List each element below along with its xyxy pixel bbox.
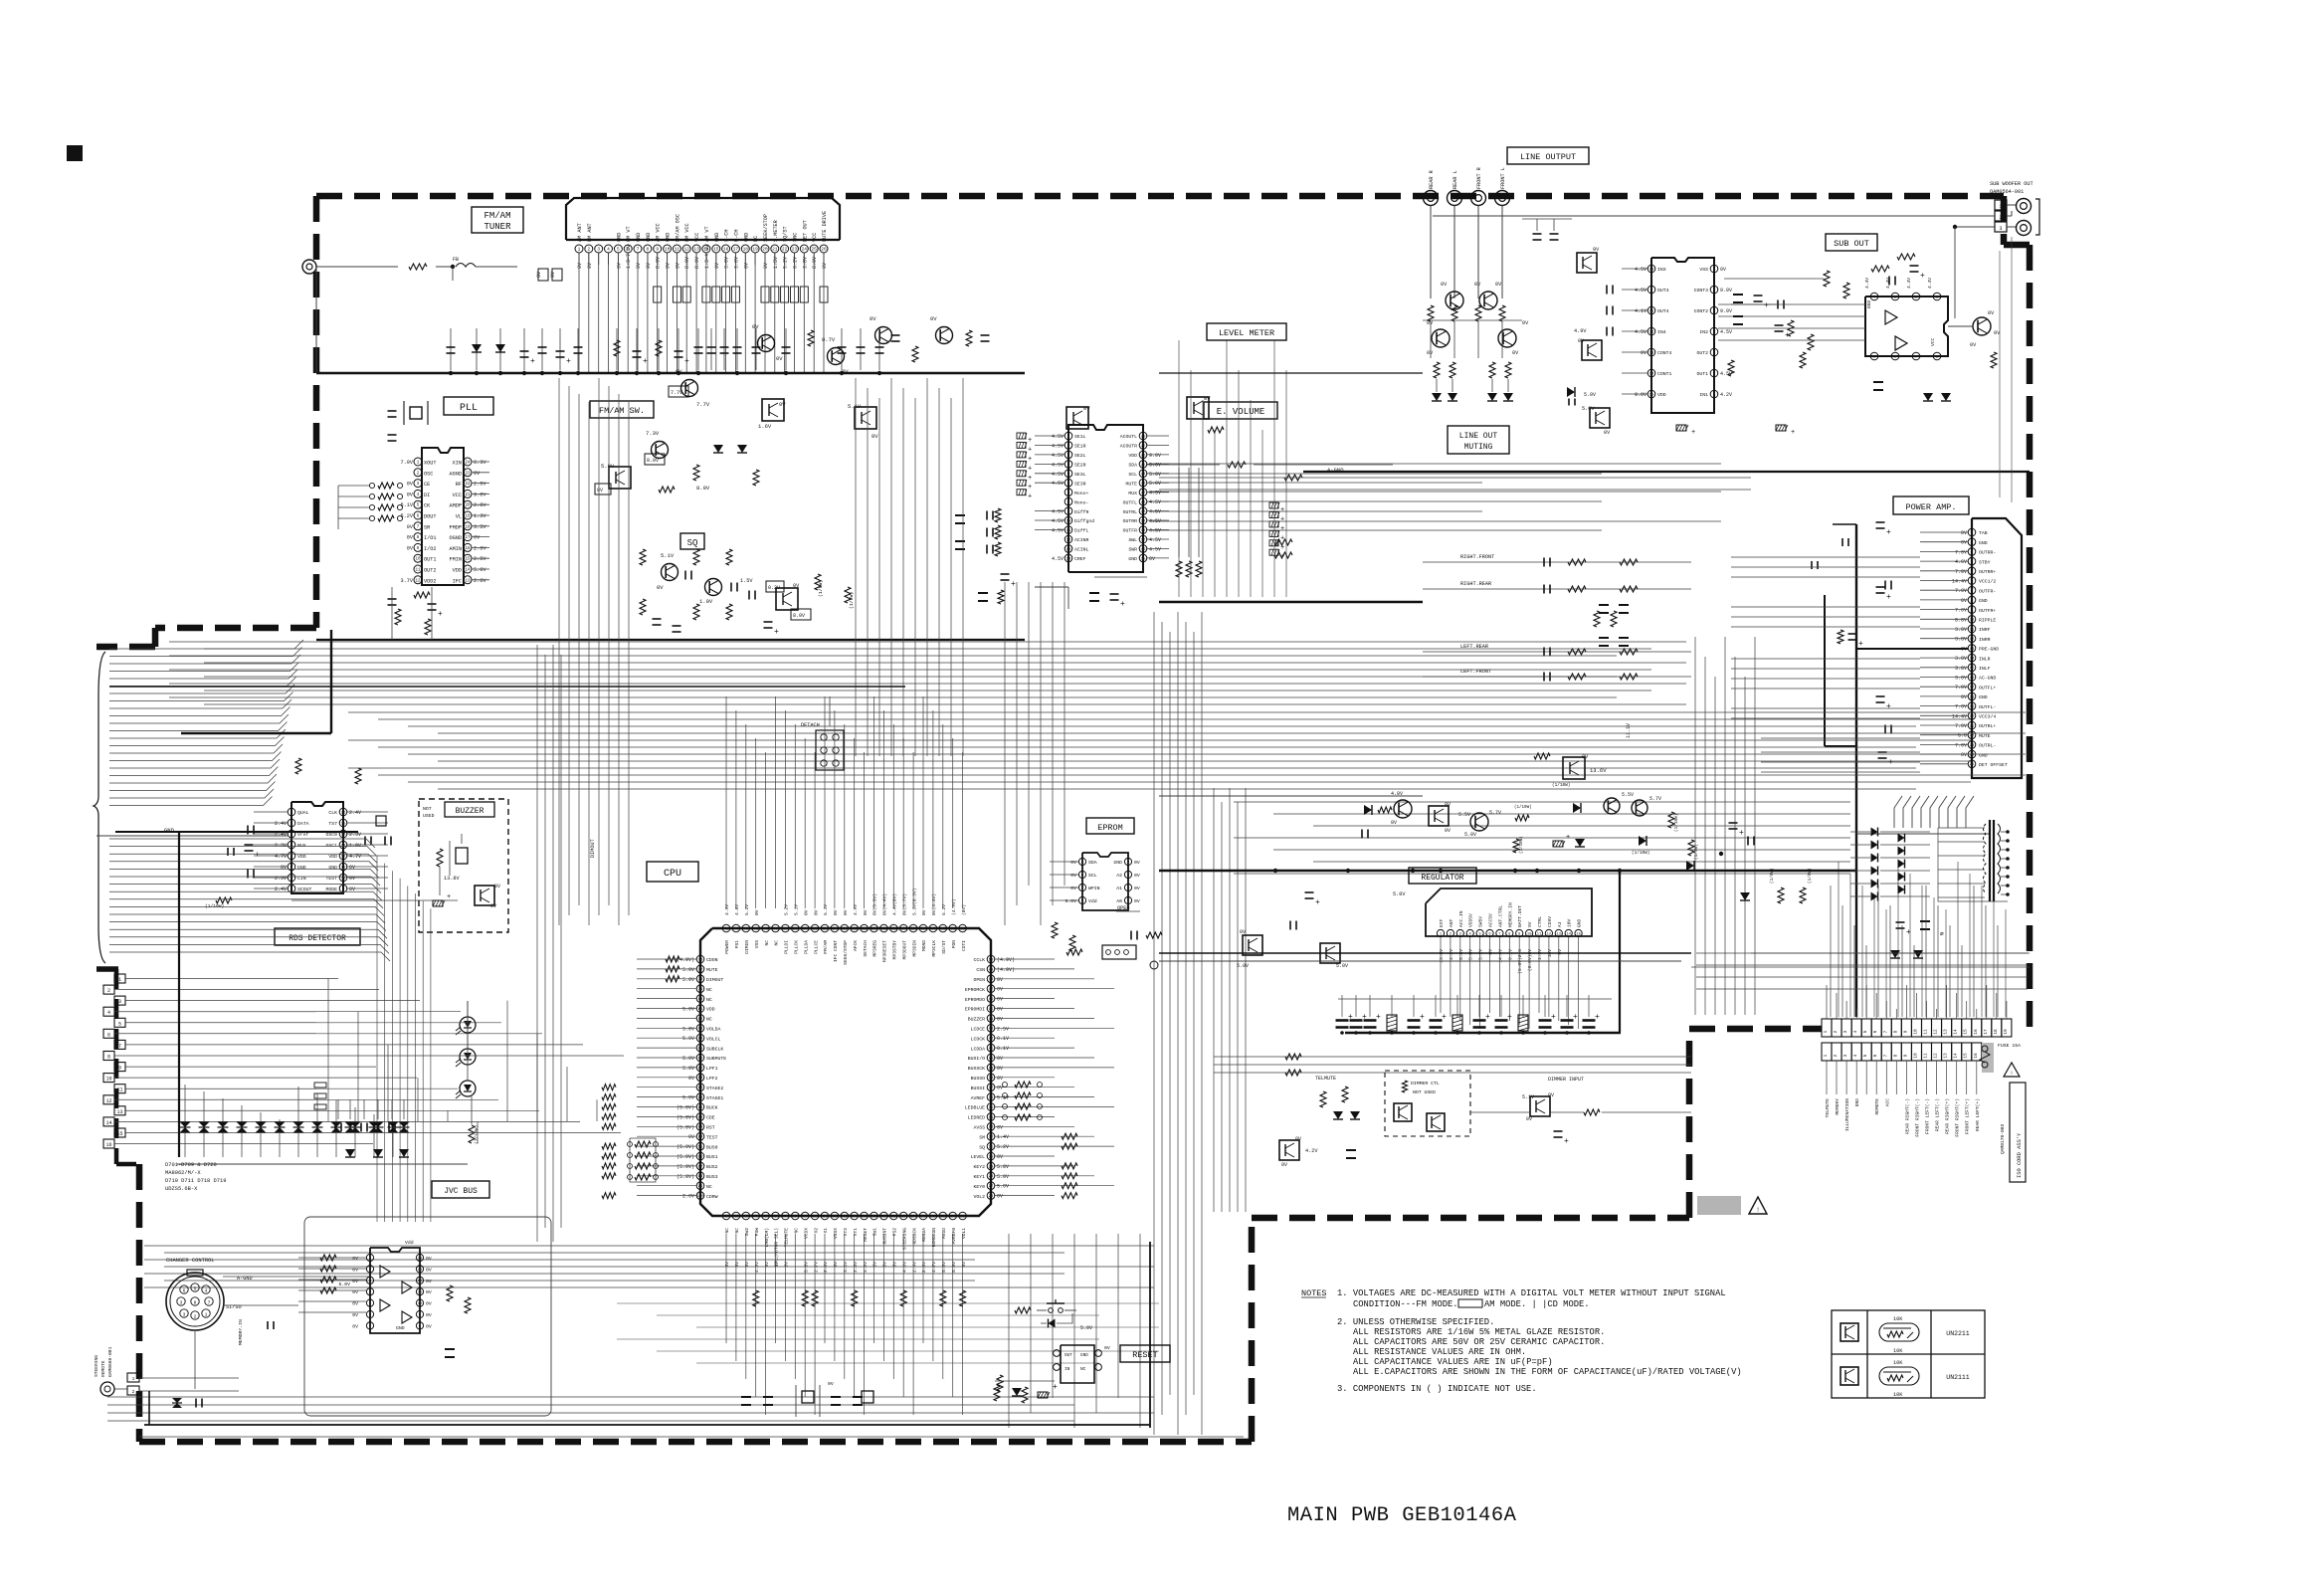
svg-text:16: 16 — [1974, 1053, 1979, 1059]
svg-text:93: 93 — [698, 1126, 703, 1130]
svg-text:GND: GND — [1854, 1098, 1860, 1107]
svg-text:0V: 0V — [921, 909, 927, 915]
svg-text:9: 9 — [118, 1066, 121, 1072]
svg-text:70: 70 — [773, 927, 778, 931]
connector row lines — [316, 978, 338, 980]
svg-text:4.6V: 4.6V — [1955, 559, 1967, 565]
svg-text:2: 2 — [1834, 1054, 1839, 1057]
svg-text:1.6V: 1.6V — [758, 423, 772, 430]
svg-text:MP3STBY: MP3STBY — [892, 940, 898, 960]
svg-text:9: 9 — [1903, 1030, 1908, 1033]
svg-text:7.7V: 7.7V — [671, 390, 682, 396]
svg-text:26: 26 — [989, 1195, 994, 1199]
svg-text:0V: 0V — [349, 865, 355, 871]
svg-text:NC: NC — [774, 940, 780, 946]
svg-text:2.0V: 2.0V — [682, 1194, 694, 1200]
svg-text:CDRW: CDRW — [706, 1194, 718, 1200]
svg-text:0V: 0V — [1391, 820, 1397, 826]
E.VOL diff network — [986, 511, 988, 520]
svg-text:45: 45 — [989, 1008, 994, 1012]
svg-text:40: 40 — [989, 1057, 994, 1061]
svg-text:STAGE2: STAGE2 — [706, 1086, 723, 1091]
svg-text:0V: 0V — [688, 1134, 694, 1140]
svg-text:SQ/ST: SQ/ST — [783, 226, 789, 242]
svg-text:17: 17 — [465, 536, 471, 540]
line output jacks — [1424, 191, 1439, 206]
svg-text:GND: GND — [666, 233, 672, 242]
svg-text:8.0V: 8.0V — [684, 257, 690, 269]
svg-text:0V: 0V — [1961, 752, 1967, 758]
svg-text:TELMUTE: TELMUTE — [1825, 1098, 1831, 1118]
svg-text:FM VT: FM VT — [626, 226, 632, 242]
svg-text:31: 31 — [989, 1146, 994, 1150]
svg-text:5.0V: 5.0V — [601, 463, 615, 470]
main top rail — [316, 372, 1025, 375]
svg-text:16: 16 — [1970, 677, 1975, 681]
svg-text:TAB: TAB — [1979, 530, 1988, 536]
svg-text:0V: 0V — [1578, 338, 1585, 344]
svg-text:0V: 0V — [997, 1086, 1003, 1091]
svg-text:18: 18 — [1994, 1029, 1999, 1035]
center vertical bundle — [558, 378, 560, 925]
svg-text:0V: 0V — [474, 471, 481, 477]
svg-text:0V: 0V — [636, 263, 642, 269]
svg-text:0V: 0V — [1295, 1136, 1301, 1142]
jumpers — [314, 1083, 326, 1087]
svg-text:+: + — [1053, 1383, 1058, 1392]
svg-text:69: 69 — [783, 927, 788, 931]
svg-text:7: 7 — [208, 1300, 211, 1306]
svg-text:PS2: PS2 — [892, 1228, 898, 1237]
svg-text:SUBMUTE: SUBMUTE — [706, 1056, 726, 1062]
svg-text:NC: NC — [734, 1228, 740, 1234]
svg-text:29: 29 — [989, 1165, 994, 1169]
svg-text:14: 14 — [105, 1120, 111, 1126]
svg-text:5.1V: 5.1V — [848, 403, 862, 410]
opto surroundings — [298, 1257, 366, 1259]
svg-text:23: 23 — [792, 247, 798, 253]
svg-text:CONT2: CONT2 — [1694, 308, 1709, 314]
svg-text:OUTFR+: OUTFR+ — [1979, 608, 1996, 614]
svg-text:0V: 0V — [426, 1279, 432, 1284]
svg-text:0V: 0V — [803, 909, 809, 915]
svg-text:AVSS: AVSS — [973, 1125, 985, 1131]
svg-text:2.6V: 2.6V — [474, 545, 486, 551]
svg-text:65: 65 — [823, 927, 828, 931]
svg-text:!: ! — [1756, 1207, 1760, 1214]
svg-text:CONT4: CONT4 — [1657, 350, 1672, 356]
svg-text:STEERING: STEERING — [901, 1228, 907, 1250]
steering remote jack — [100, 1382, 114, 1396]
svg-text:3: 3 — [180, 1300, 183, 1306]
svg-text:7.0V: 7.0V — [1955, 723, 1967, 729]
svg-text:18: 18 — [743, 247, 749, 253]
svg-text:1: 1 — [1999, 204, 2002, 210]
E.VOLUME label — [1204, 402, 1277, 419]
svg-text:13: 13 — [1066, 548, 1071, 552]
svg-text:GAM0688-001: GAM0688-001 — [107, 1346, 113, 1377]
svg-text:+: + — [643, 357, 648, 366]
svg-text:2.5V: 2.5V — [474, 482, 486, 488]
svg-text:12: 12 — [683, 247, 689, 253]
svg-text:POWER AMP.: POWER AMP. — [1905, 502, 1956, 512]
svg-text:TEST: TEST — [706, 1134, 718, 1140]
svg-text:DiffR: DiffR — [1074, 509, 1089, 515]
svg-text:19: 19 — [752, 247, 758, 253]
svg-text:63: 63 — [842, 927, 847, 931]
svg-text:2.4V: 2.4V — [911, 1262, 917, 1273]
svg-text:ALL RESISTORS ARE 1/16W 5% MET: ALL RESISTORS ARE 1/16W 5% METAL GLAZE R… — [1353, 1327, 1605, 1337]
svg-text:GND: GND — [396, 1325, 405, 1331]
svg-text:ALL CAPACITORS ARE 50V OR 25V: ALL CAPACITORS ARE 50V OR 25V CERAMIC CA… — [1353, 1337, 1605, 1347]
LINE OUT MUTING label — [1448, 426, 1509, 454]
svg-text:LINE OUT: LINE OUT — [1459, 432, 1498, 441]
svg-text:CONT3: CONT3 — [1694, 288, 1709, 294]
svg-text:76: 76 — [698, 958, 703, 962]
svg-text:MP3DIN: MP3DIN — [911, 940, 917, 957]
svg-text:0.2V: 0.2V — [793, 257, 799, 269]
svg-text:VOLDA: VOLDA — [706, 1027, 721, 1033]
svg-text:+: + — [1764, 301, 1769, 310]
svg-text:SW2: SW2 — [744, 1228, 750, 1237]
E.VOL resistors to bus — [1178, 468, 1180, 557]
svg-text:0V: 0V — [743, 263, 749, 269]
tuner connector CN101 — [566, 198, 840, 240]
svg-text:12: 12 — [341, 855, 346, 859]
svg-text:5.0V: 5.0V — [997, 1184, 1009, 1190]
svg-text:88: 88 — [698, 1077, 703, 1081]
svg-text:1.3V: 1.3V — [1537, 949, 1543, 960]
svg-text:4: 4 — [107, 1010, 110, 1016]
svg-text:3. COMPONENTS IN ( ) INDICATE: 3. COMPONENTS IN ( ) INDICATE NOT USE. — [1337, 1384, 1537, 1394]
svg-text:GND: GND — [636, 233, 642, 242]
svg-text:11: 11 — [1970, 628, 1975, 632]
svg-text:7: 7 — [1498, 932, 1500, 936]
svg-text:NC: NC — [764, 940, 770, 946]
svg-text:0V: 0V — [828, 1381, 834, 1387]
svg-text:1.3-4.0V: 1.3-4.0V — [704, 245, 710, 269]
svg-text:VDD: VDD — [1657, 392, 1666, 398]
svg-text:0.1V: 0.1V — [997, 1036, 1009, 1042]
svg-text:NC: NC — [1080, 1367, 1086, 1372]
svg-text:78: 78 — [698, 978, 703, 982]
svg-text:X2: X2 — [813, 1228, 819, 1234]
regulator top components — [1394, 800, 1412, 818]
svg-text:10: 10 — [1914, 1053, 1919, 1059]
svg-text:23: 23 — [1141, 483, 1146, 487]
svg-text:8.0V: 8.0V — [694, 257, 700, 269]
ISO feed lines top — [1826, 985, 1828, 1019]
svg-text:19: 19 — [901, 1215, 906, 1219]
svg-text:+: + — [1280, 525, 1284, 533]
vertical bundle right of E.VOL — [1153, 612, 1155, 1435]
svg-text:2.6V: 2.6V — [474, 578, 486, 584]
svg-text:BUSINT: BUSINT — [882, 1228, 888, 1245]
svg-text:AGND: AGND — [450, 471, 462, 477]
svg-text:25: 25 — [1141, 464, 1146, 468]
svg-text:0V: 0V — [1134, 873, 1140, 879]
svg-text:92: 92 — [698, 1116, 703, 1120]
svg-text:17: 17 — [733, 247, 739, 253]
svg-text:4.2V: 4.2V — [1720, 392, 1732, 398]
svg-text:0V: 0V — [352, 1301, 358, 1307]
svg-text:17: 17 — [1141, 538, 1146, 542]
svg-text:(5.0V): (5.0V) — [677, 1144, 694, 1150]
svg-text:8.8V: 8.8V — [1955, 617, 1967, 623]
svg-text:TS7: TS7 — [328, 821, 337, 827]
svg-text:MP3RESET: MP3RESET — [882, 940, 888, 962]
svg-text:0V: 0V — [1961, 598, 1967, 604]
svg-text:4.5V: 4.5V — [1149, 491, 1161, 496]
svg-text:CDTI: CDTI — [961, 940, 967, 951]
svg-text:0V(4.4V): 0V(4.4V) — [931, 893, 937, 915]
ISO vertical feeds extra — [1838, 862, 1840, 1017]
svg-text:FB: FB — [453, 257, 459, 263]
svg-text:5.0V: 5.0V — [1464, 832, 1476, 838]
svg-text:+: + — [684, 357, 689, 366]
svg-text:+: + — [1028, 446, 1032, 454]
svg-text:GND: GND — [646, 233, 652, 242]
svg-text:S.METER: S.METER — [773, 220, 779, 242]
svg-text:Diffgnd: Diffgnd — [1074, 518, 1094, 524]
svg-text:5.0V: 5.0V — [1468, 949, 1474, 960]
svg-text:8.0V: 8.0V — [656, 257, 662, 269]
svg-text:SWR: SWR — [1128, 547, 1137, 553]
lower jog verticals — [376, 856, 378, 1222]
svg-text:SEEK/STOP: SEEK/STOP — [843, 940, 849, 965]
svg-text:INRR: INRR — [1979, 637, 1991, 643]
svg-text:CTRL: CTRL — [1537, 916, 1543, 927]
svg-text:10: 10 — [813, 1215, 818, 1219]
svg-text:OUTFL+: OUTFL+ — [1979, 685, 1996, 691]
svg-text:AM MODE. | |CD MODE.: AM MODE. | |CD MODE. — [1484, 1299, 1590, 1309]
svg-text:SM: SM — [979, 1134, 985, 1140]
svg-text:10K: 10K — [1893, 1392, 1903, 1398]
tuner decoupling row — [450, 328, 452, 370]
svg-text:17: 17 — [1970, 687, 1975, 691]
svg-text:5.0V: 5.0V — [997, 1174, 1009, 1180]
svg-text:+: + — [530, 357, 535, 366]
svg-text:RESET: RESET — [863, 1228, 869, 1242]
svg-text:4.4V(0V): 4.4V(0V) — [892, 893, 898, 915]
svg-text:5.0V: 5.0V — [1237, 963, 1249, 969]
svg-text:7: 7 — [118, 1043, 121, 1049]
registration mark — [67, 145, 83, 161]
svg-text:89: 89 — [698, 1086, 703, 1090]
svg-text:0V: 0V — [1548, 1092, 1554, 1098]
svg-text:6.3V: 6.3V — [474, 460, 486, 466]
svg-text:0V: 0V — [1522, 320, 1529, 326]
svg-text:Vdd: Vdd — [405, 1240, 414, 1246]
svg-text:12: 12 — [1970, 638, 1975, 642]
svg-text:36: 36 — [989, 1096, 994, 1100]
svg-text:12: 12 — [1066, 538, 1071, 542]
svg-text:58: 58 — [891, 927, 896, 931]
svg-text:PLLCK: PLLCK — [794, 940, 800, 954]
svg-text:FMDP: FMDP — [450, 524, 462, 530]
svg-text:5.2V: 5.2V — [997, 1144, 1009, 1150]
svg-text:OUT4: OUT4 — [1657, 308, 1669, 314]
svg-text:+: + — [1888, 758, 1893, 767]
svg-text:0V: 0V — [1720, 267, 1726, 273]
svg-text:0V: 0V — [997, 1124, 1003, 1130]
svg-text:16: 16 — [1141, 548, 1146, 552]
svg-text:16: 16 — [871, 1215, 876, 1219]
svg-text:UDZS5.6B-X: UDZS5.6B-X — [165, 1186, 198, 1192]
svg-text:15: 15 — [465, 558, 471, 562]
svg-text:(1/10W): (1/10W) — [1674, 814, 1679, 832]
svg-text:0V: 0V — [1427, 350, 1434, 356]
svg-text:2: 2 — [107, 988, 110, 994]
svg-text:A0: A0 — [1116, 898, 1122, 904]
svg-text:0V: 0V — [494, 884, 500, 889]
svg-text:4.5V: 4.5V — [1149, 499, 1161, 505]
svg-text:5.0V: 5.0V — [1080, 1325, 1092, 1331]
svg-text:+: + — [1785, 331, 1790, 340]
svg-text:1.3-7.5V: 1.3-7.5V — [626, 245, 632, 269]
svg-text:0V: 0V — [1104, 1345, 1110, 1351]
svg-text:0V: 0V — [1240, 929, 1246, 935]
svg-text:0V: 0V — [281, 865, 287, 871]
svg-text:14.4V: 14.4V — [1952, 713, 1967, 719]
svg-text:VDD: VDD — [706, 1007, 715, 1013]
svg-text:97: 97 — [698, 1165, 703, 1169]
svg-text:2.6V: 2.6V — [921, 1262, 927, 1273]
muting transistors — [1446, 292, 1463, 309]
svg-text:SDA: SDA — [1128, 463, 1137, 469]
svg-text:+: + — [1691, 429, 1695, 437]
svg-text:0V: 0V — [426, 1312, 432, 1318]
svg-text:⌀: ⌀ — [1940, 930, 1944, 937]
svg-text:49: 49 — [989, 968, 994, 972]
right mid horizontals — [1234, 801, 1850, 803]
svg-text:EPROMCK: EPROMCK — [965, 987, 985, 993]
svg-text:VL: VL — [456, 514, 462, 520]
svg-text:SR: SR — [424, 524, 430, 530]
svg-text:5.0V: 5.0V — [682, 1056, 694, 1062]
svg-text:+: + — [1739, 829, 1744, 838]
svg-text:11: 11 — [415, 569, 421, 573]
svg-text:4.4V: 4.4V — [1906, 278, 1912, 289]
svg-text:2: 2 — [132, 1389, 135, 1395]
svg-text:ALL E.CAPACITORS ARE SHOWN IN: ALL E.CAPACITORS ARE SHOWN IN THE FORM O… — [1353, 1367, 1742, 1377]
svg-text:5.0V: 5.0V — [1149, 472, 1161, 478]
svg-text:DI: DI — [424, 493, 430, 498]
svg-text:WPIN: WPIN — [1088, 886, 1100, 891]
svg-text:4.5V: 4.5V — [1052, 443, 1064, 449]
svg-text:5.1V: 5.1V — [794, 904, 800, 915]
svg-text:0V: 0V — [997, 997, 1003, 1003]
svg-text:EPROMDO: EPROMDO — [965, 997, 985, 1003]
svg-text:14: 14 — [1566, 932, 1571, 936]
svg-text:MUTE: MUTE — [1125, 481, 1137, 487]
LEDs D710s — [460, 1017, 476, 1033]
CPU bottom resistors — [753, 1290, 759, 1306]
regulator IC — [1426, 889, 1592, 936]
svg-text:BUSSO: BUSSO — [971, 1076, 986, 1082]
regulator to ISO wires — [1830, 886, 1832, 1017]
svg-text:4.9V: 4.9V — [853, 904, 859, 915]
svg-text:27: 27 — [1141, 445, 1146, 449]
svg-text:95: 95 — [698, 1146, 703, 1150]
svg-text:4.5V: 4.5V — [1635, 267, 1646, 273]
svg-text:1: 1 — [578, 247, 581, 253]
svg-text:37: 37 — [989, 1086, 994, 1090]
svg-text:13.6V: 13.6V — [1590, 767, 1607, 774]
svg-text:(1/8W): (1/8W) — [849, 592, 855, 609]
svg-text:0V: 0V — [776, 355, 783, 362]
svg-text:MP3CLK: MP3CLK — [931, 940, 937, 957]
svg-text:3.7V: 3.7V — [401, 578, 414, 584]
svg-text:LPF1: LPF1 — [706, 1066, 718, 1072]
svg-text:FRONT L: FRONT L — [1500, 167, 1506, 189]
svg-text:12: 12 — [1934, 1029, 1939, 1035]
svg-text:0V: 0V — [793, 583, 800, 589]
svg-text:+: + — [1028, 494, 1032, 501]
svg-text:77: 77 — [698, 968, 703, 972]
svg-text:4: 4 — [607, 247, 610, 253]
svg-text:DIMMER INPUT: DIMMER INPUT — [1548, 1077, 1584, 1083]
right inner vertical bundle — [1999, 251, 2001, 497]
svg-text:3.1V: 3.1V — [843, 1262, 849, 1273]
svg-text:14: 14 — [1066, 557, 1071, 561]
svg-text:11: 11 — [1924, 1029, 1929, 1035]
svg-text:9.0V: 9.0V — [1149, 453, 1161, 459]
svg-text:22: 22 — [1970, 734, 1975, 738]
level meter rail — [1159, 601, 1423, 603]
CPU label — [647, 862, 698, 882]
svg-text:BUS0: BUS0 — [706, 1144, 718, 1150]
CPU left resistors — [666, 956, 679, 962]
svg-text:VDD5V: VDD5V — [1468, 913, 1474, 927]
svg-text:7.3V: 7.3V — [646, 430, 660, 437]
svg-text:0V: 0V — [536, 272, 542, 278]
svg-text:5.1V: 5.1V — [823, 904, 829, 915]
svg-text:3: 3 — [183, 1312, 186, 1318]
svg-text:6: 6 — [1873, 1030, 1878, 1033]
svg-text:E. VOLUME: E. VOLUME — [1217, 407, 1265, 417]
svg-text:GND: GND — [1128, 556, 1137, 562]
svg-text:SE3R: SE3R — [1074, 481, 1086, 487]
svg-text:3.8V: 3.8V — [1955, 656, 1967, 662]
svg-text:+: + — [1028, 437, 1032, 445]
svg-text:0V: 0V — [843, 909, 849, 915]
svg-text:DET OUT: DET OUT — [802, 220, 808, 242]
svg-text:0V: 0V — [870, 315, 876, 322]
svg-text:ILLUMINATION: ILLUMINATION — [1844, 1098, 1850, 1131]
svg-text:SUB WOOFER OUT: SUB WOOFER OUT — [1990, 181, 2033, 187]
svg-text:83: 83 — [698, 1028, 703, 1032]
svg-text:BUCK: BUCK — [706, 1105, 718, 1111]
svg-text:0V: 0V — [997, 977, 1003, 983]
svg-text:OPEN: OPEN — [1117, 905, 1129, 911]
svg-text:17: 17 — [881, 1215, 886, 1219]
svg-text:15: 15 — [713, 247, 719, 253]
PLL resistor pack — [369, 483, 374, 488]
svg-text:0.7V: 0.7V — [822, 336, 836, 343]
svg-text:ISO CORD ASS'Y: ISO CORD ASS'Y — [2017, 1132, 2023, 1178]
svg-text:MEMORY.IN: MEMORY.IN — [238, 1319, 244, 1345]
svg-text:0V: 0V — [1970, 342, 1977, 348]
svg-text:1.5V: 1.5V — [740, 578, 753, 584]
svg-text:13: 13 — [418, 1269, 423, 1273]
ISO connector row2 — [1822, 1043, 1832, 1061]
svg-text:ANT.CTRL: ANT.CTRL — [1497, 905, 1503, 927]
svg-text:0V: 0V — [407, 482, 414, 488]
svg-text:15: 15 — [341, 822, 346, 826]
svg-text:5.0: 5.0 — [1958, 733, 1967, 739]
svg-text:ACINR: ACINR — [1074, 537, 1089, 543]
